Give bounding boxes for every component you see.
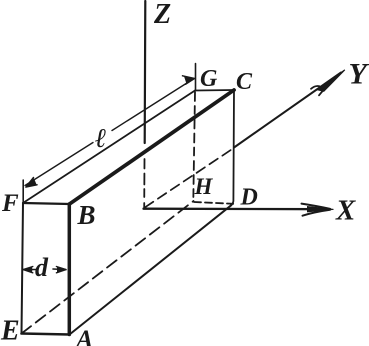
svg-text:d: d (35, 253, 49, 282)
svg-text:B: B (77, 200, 96, 230)
svg-text:F: F (1, 190, 19, 217)
svg-text:ℓ: ℓ (95, 123, 107, 153)
svg-text:Z: Z (153, 0, 171, 30)
svg-text:H: H (194, 174, 214, 199)
svg-text:C: C (236, 69, 253, 95)
svg-text:D: D (240, 185, 258, 211)
svg-text:A: A (74, 325, 93, 346)
svg-text:Y: Y (349, 58, 369, 91)
svg-text:X: X (335, 195, 356, 227)
svg-text:G: G (200, 66, 218, 92)
svg-text:E: E (0, 316, 20, 346)
